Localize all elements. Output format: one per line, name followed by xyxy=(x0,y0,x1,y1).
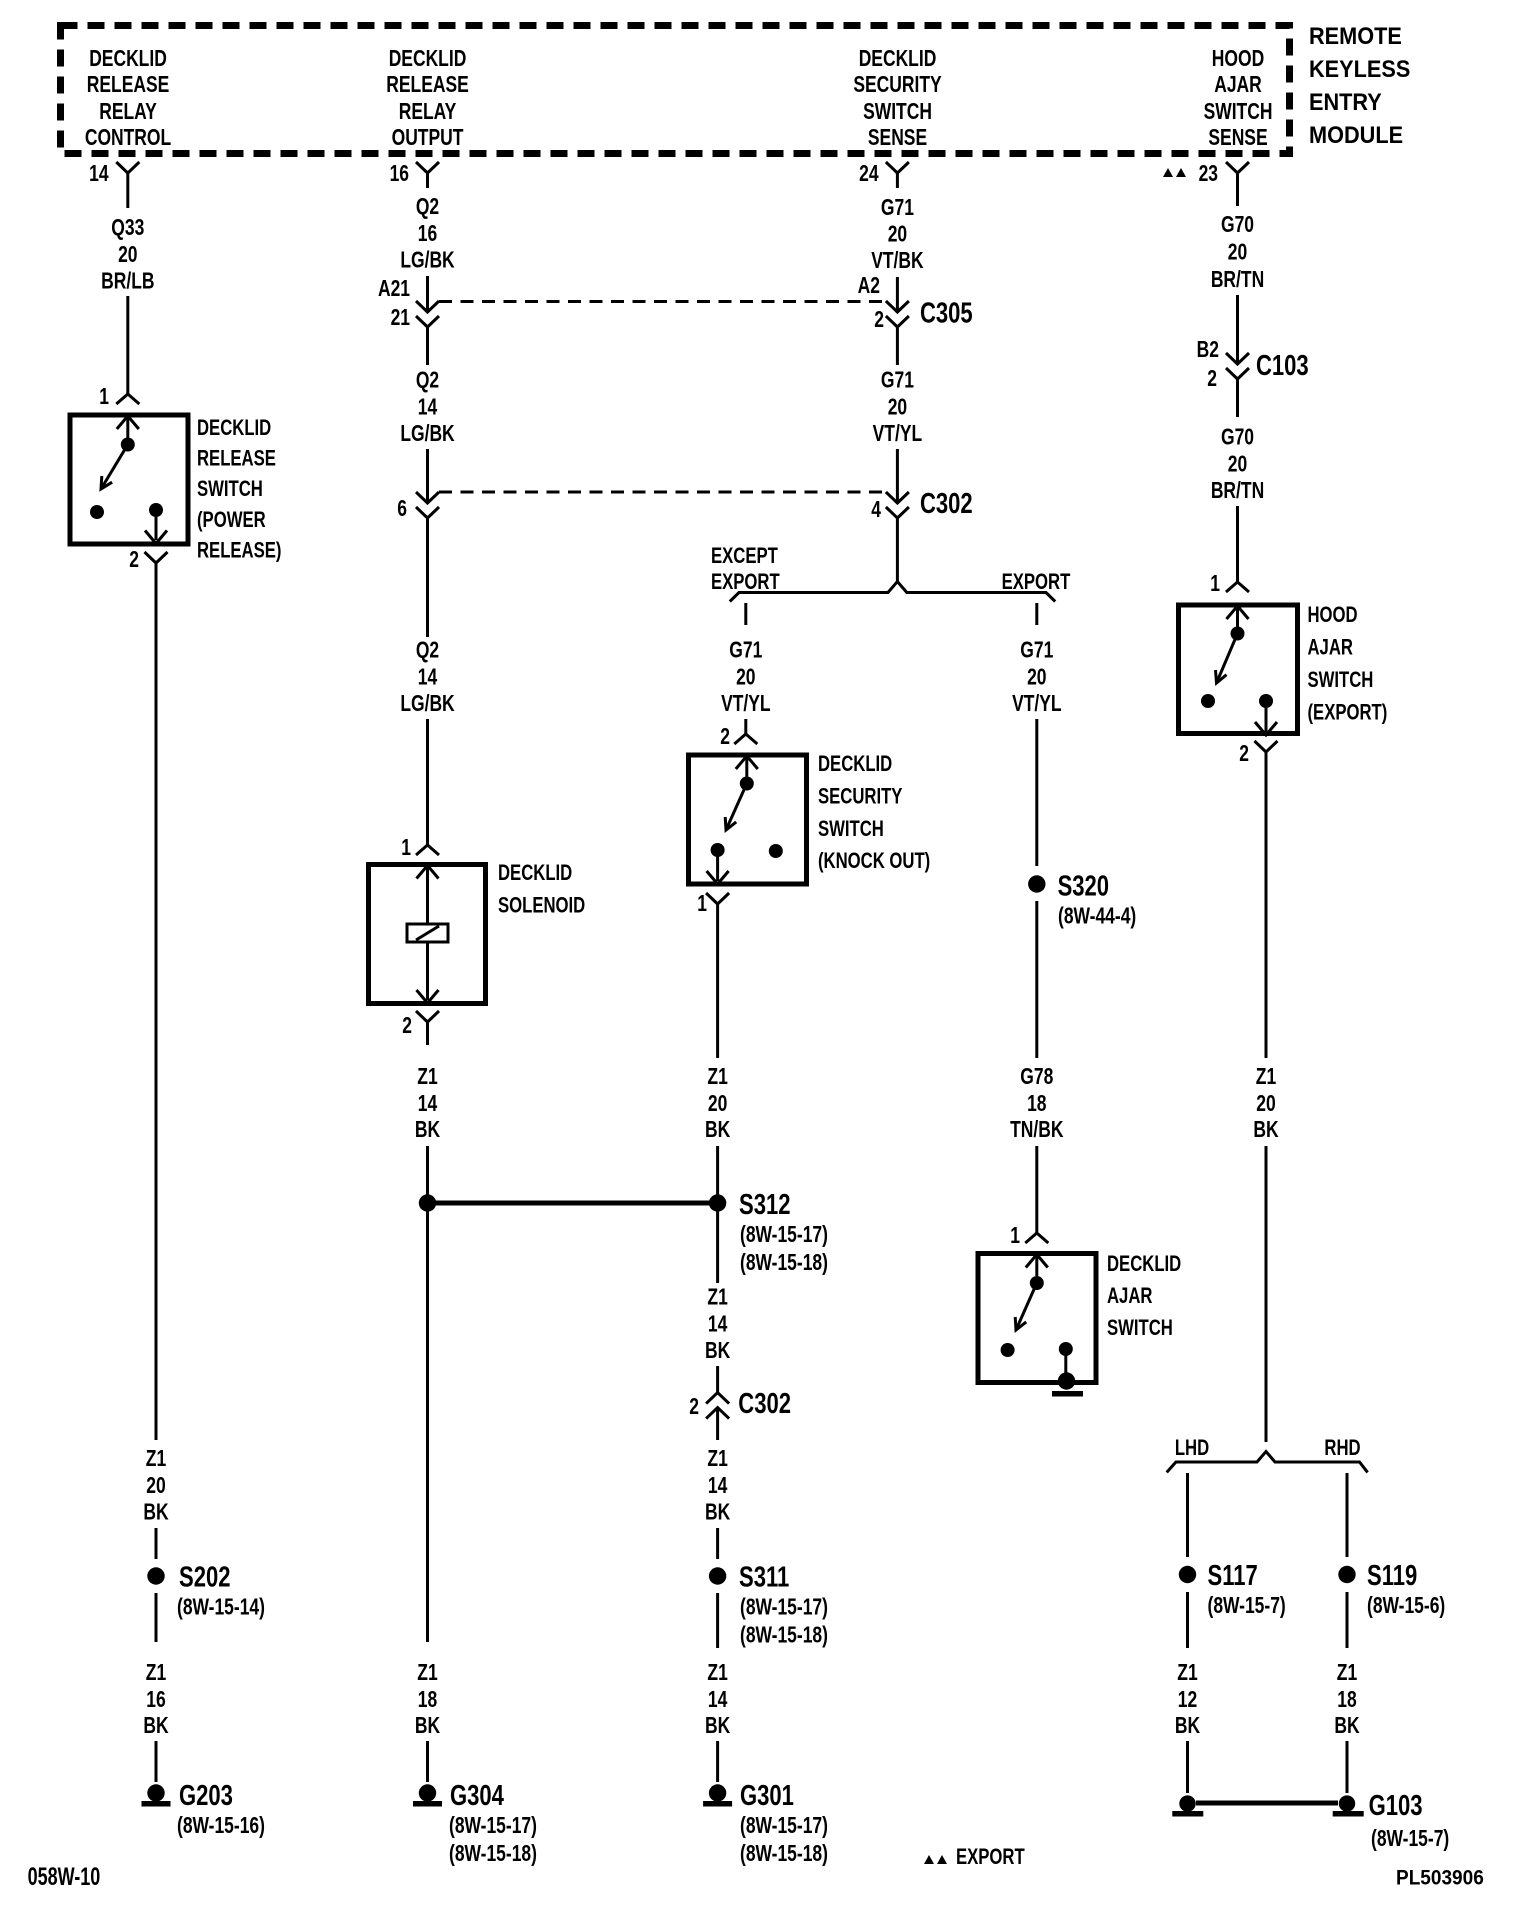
wire to decklid ajar switch xyxy=(1035,1146,1038,1233)
svg-text:C302: C302 xyxy=(920,488,973,520)
svg-text:20: 20 xyxy=(1228,240,1247,265)
svg-text:14: 14 xyxy=(89,162,109,187)
svg-text:BK: BK xyxy=(705,1118,730,1143)
svg-text:(POWER: (POWER xyxy=(197,508,266,533)
in-line connector C103 pin B2/2 xyxy=(1207,350,1308,391)
wire from switch pin 2 down xyxy=(155,563,158,1440)
wire below S202 xyxy=(155,1593,158,1642)
svg-text:A21: A21 xyxy=(378,277,410,302)
label: HOOD AJAR SWITCH (EXPORT) xyxy=(1308,603,1388,725)
svg-text:(KNOCK OUT): (KNOCK OUT) xyxy=(818,849,930,874)
svg-text:BR/TN: BR/TN xyxy=(1211,479,1264,504)
wire label Q2 14 LG/BK xyxy=(400,327,455,447)
svg-text:BK: BK xyxy=(1334,1714,1359,1739)
dashed link wire to C302 column 3 xyxy=(439,491,884,494)
svg-text:VT/YL: VT/YL xyxy=(721,692,770,717)
pin 1 of decklid solenoid xyxy=(401,836,439,861)
svg-text:2: 2 xyxy=(874,308,884,333)
svg-text:Q2: Q2 xyxy=(416,195,439,220)
wire below S320 xyxy=(1035,901,1038,1058)
svg-text:B2: B2 xyxy=(1197,338,1219,363)
svg-text:RELAY: RELAY xyxy=(99,100,157,125)
svg-text:MODULE: MODULE xyxy=(1309,121,1403,148)
svg-text:BK: BK xyxy=(705,1339,730,1364)
svg-text:SECURITY: SECURITY xyxy=(853,73,942,98)
wire joining grounds xyxy=(1196,1801,1338,1806)
svg-text:G203: G203 xyxy=(179,1780,233,1812)
svg-text:A2: A2 xyxy=(858,274,880,299)
in-line connector C305 pin A2/2 xyxy=(874,298,972,333)
wire below hood ajar switch xyxy=(1265,753,1268,1059)
svg-text:VT/BK: VT/BK xyxy=(871,249,924,274)
svg-text:2: 2 xyxy=(689,1395,699,1420)
ground G203 xyxy=(142,1780,265,1838)
wire to decklid solenoid xyxy=(426,719,429,845)
svg-text:20: 20 xyxy=(708,1092,727,1117)
wire to ground G203 xyxy=(155,1741,158,1782)
splice S320 xyxy=(1028,871,1136,929)
svg-text:14: 14 xyxy=(418,1092,438,1117)
svg-text:SWITCH: SWITCH xyxy=(1204,100,1273,125)
svg-text:2: 2 xyxy=(1239,742,1249,767)
wire to LHD/RHD split xyxy=(1265,1146,1268,1442)
wire label Z1 14 BK (above C302) xyxy=(705,1285,730,1363)
pin 2 of decklid solenoid xyxy=(402,1011,439,1045)
label: DECKLID RELEASE SWITCH (POWER RELEASE) xyxy=(197,416,281,563)
wire to splice S312 xyxy=(716,1146,719,1196)
wire label Z1 16 BK xyxy=(143,1661,168,1739)
wire label G70 20 BR/TN xyxy=(1211,213,1264,293)
pin function: DECKLID RELEASE RELAY OUTPUT xyxy=(386,47,468,151)
wire below C302 xyxy=(426,518,429,637)
svg-text:BK: BK xyxy=(143,1714,168,1739)
svg-text:BK: BK xyxy=(705,1714,730,1739)
svg-text:SENSE: SENSE xyxy=(1208,126,1267,151)
svg-text:(8W-15-17): (8W-15-17) xyxy=(740,1223,828,1248)
svg-text:BK: BK xyxy=(415,1714,440,1739)
module name: REMOTE KEYLESS ENTRY MODULE xyxy=(1309,22,1410,148)
svg-text:SENSE: SENSE xyxy=(868,126,927,151)
svg-text:20: 20 xyxy=(118,243,137,268)
svg-text:G70: G70 xyxy=(1221,213,1254,238)
svg-text:1: 1 xyxy=(1210,572,1220,597)
svg-text:20: 20 xyxy=(888,222,907,247)
svg-text:EXPORT: EXPORT xyxy=(711,570,780,595)
svg-text:Z1: Z1 xyxy=(707,1661,727,1686)
svg-text:1: 1 xyxy=(1010,1224,1020,1249)
svg-text:(8W-15-18): (8W-15-18) xyxy=(740,1842,828,1867)
svg-text:LG/BK: LG/BK xyxy=(400,422,455,447)
svg-text:RELEASE): RELEASE) xyxy=(197,538,281,563)
label: DECKLID SOLENOID xyxy=(498,861,585,918)
wire below security switch xyxy=(716,904,719,1058)
wire below S312 xyxy=(716,1211,719,1283)
wire label G70 20 BR/TN (lower) xyxy=(1211,379,1264,504)
svg-text:BK: BK xyxy=(705,1500,730,1525)
svg-text:EXPORT: EXPORT xyxy=(956,1845,1025,1870)
svg-text:HOOD: HOOD xyxy=(1308,603,1358,628)
svg-text:(8W-15-18): (8W-15-18) xyxy=(449,1842,537,1867)
pin function: HOOD AJAR SWITCH SENSE xyxy=(1204,47,1273,151)
wire label Q2 14 LG/BK (lower) xyxy=(400,638,455,716)
branch wire (export) xyxy=(1035,603,1038,625)
svg-text:(8W-15-7): (8W-15-7) xyxy=(1371,1827,1449,1852)
svg-text:18: 18 xyxy=(1027,1092,1046,1117)
svg-text:14: 14 xyxy=(708,1312,728,1337)
branch split EXCEPT EXPORT / EXPORT xyxy=(730,582,1055,602)
svg-text:HOOD: HOOD xyxy=(1212,47,1264,72)
svg-text:(8W-15-6): (8W-15-6) xyxy=(1367,1594,1445,1619)
svg-text:DECKLID: DECKLID xyxy=(859,47,937,72)
pin 1 of decklid security switch xyxy=(697,892,729,917)
svg-text:OUTPUT: OUTPUT xyxy=(392,126,464,151)
svg-text:S320: S320 xyxy=(1058,871,1109,903)
splice S117 xyxy=(1179,1560,1286,1618)
pin function: DECKLID SECURITY SWITCH SENSE xyxy=(853,47,942,151)
svg-text:20: 20 xyxy=(146,1474,165,1499)
svg-text:1: 1 xyxy=(99,385,109,410)
svg-text:(8W-44-4): (8W-44-4) xyxy=(1058,904,1136,929)
svg-text:RELEASE: RELEASE xyxy=(386,73,468,98)
svg-text:058W-10: 058W-10 xyxy=(28,1862,101,1891)
svg-text:CONTROL: CONTROL xyxy=(85,126,171,151)
export legend triangles xyxy=(924,1855,947,1864)
svg-text:RELEASE: RELEASE xyxy=(197,446,276,471)
svg-text:18: 18 xyxy=(1337,1688,1356,1713)
svg-text:RELAY: RELAY xyxy=(399,100,457,125)
wire below S311 xyxy=(716,1593,719,1648)
svg-text:G71: G71 xyxy=(729,638,762,663)
dashed link wire to C305 column 3 xyxy=(439,300,884,303)
label EXCEPT EXPORT xyxy=(711,544,780,595)
wire label Z1 14 BK (below C302) xyxy=(705,1447,730,1525)
wire label Z1 14 BK xyxy=(415,1065,440,1143)
wire below S119 xyxy=(1346,1592,1349,1648)
svg-text:G78: G78 xyxy=(1020,1065,1053,1090)
wire to connector C302 xyxy=(426,449,429,503)
in-line connector C302 pin 6 xyxy=(397,492,439,522)
svg-text:16: 16 xyxy=(418,222,437,247)
svg-text:14: 14 xyxy=(418,665,438,690)
wire Q33 20 BR/LB xyxy=(101,216,154,394)
svg-text:(8W-15-18): (8W-15-18) xyxy=(740,1623,828,1648)
wire label G71 20 VT/BK xyxy=(871,196,924,274)
ground G103 xyxy=(1333,1790,1450,1851)
pin 2 of decklid release switch xyxy=(129,548,167,573)
svg-text:C103: C103 xyxy=(1256,350,1309,382)
svg-text:VT/YL: VT/YL xyxy=(1012,692,1061,717)
svg-text:BR/TN: BR/TN xyxy=(1211,268,1264,293)
wire to splice S202 xyxy=(155,1528,158,1559)
svg-text:24: 24 xyxy=(859,162,879,187)
svg-text:DECKLID: DECKLID xyxy=(818,752,892,777)
svg-text:2: 2 xyxy=(402,1014,412,1039)
wire label Z1 12 BK xyxy=(1175,1661,1200,1739)
svg-text:16: 16 xyxy=(146,1688,165,1713)
pin 1 of decklid release switch xyxy=(99,385,139,410)
wire label Z1 18 BK xyxy=(415,1661,440,1739)
svg-text:(8W-15-16): (8W-15-16) xyxy=(177,1814,265,1839)
svg-text:S202: S202 xyxy=(179,1562,230,1594)
pin 1 of hood ajar switch xyxy=(1210,572,1249,597)
svg-text:BK: BK xyxy=(1175,1714,1200,1739)
wire label Z1 20 BK xyxy=(143,1447,168,1525)
remote keyless entry module (dashed box) xyxy=(61,26,1290,154)
svg-text:12: 12 xyxy=(1178,1688,1197,1713)
svg-text:G71: G71 xyxy=(1020,638,1053,663)
wire label Q2 16 LG/BK xyxy=(400,195,455,273)
wire label G71 20 VT/YL (export) xyxy=(1012,638,1061,716)
svg-text:BK: BK xyxy=(143,1500,168,1525)
svg-text:S311: S311 xyxy=(739,1562,789,1594)
svg-text:Z1: Z1 xyxy=(707,1065,727,1090)
wire to ground G304 xyxy=(426,1741,429,1782)
svg-text:6: 6 xyxy=(397,497,407,522)
svg-text:20: 20 xyxy=(1228,452,1247,477)
svg-text:C305: C305 xyxy=(920,298,973,330)
svg-text:Z1: Z1 xyxy=(417,1661,437,1686)
decklid security switch (knock out) xyxy=(689,755,807,884)
svg-text:1: 1 xyxy=(401,836,411,861)
LHD / RHD branch split xyxy=(1167,1452,1368,1473)
wire to connector C305 xyxy=(858,274,898,312)
svg-text:SWITCH: SWITCH xyxy=(818,817,884,842)
svg-text:ENTRY: ENTRY xyxy=(1309,88,1382,115)
pin 14 connector xyxy=(89,162,139,208)
wire below C302 lower xyxy=(716,1408,719,1440)
wire label Z1 14 BK (bottom) xyxy=(705,1661,730,1739)
junction at S312 branch xyxy=(419,1194,436,1211)
wire to connector C103 xyxy=(1197,295,1238,364)
wire below S117 xyxy=(1186,1592,1189,1648)
svg-text:2: 2 xyxy=(129,548,139,573)
svg-text:Z1: Z1 xyxy=(1256,1065,1276,1090)
svg-text:(8W-15-18): (8W-15-18) xyxy=(740,1251,828,1276)
svg-text:Q33: Q33 xyxy=(111,216,144,241)
wire to connector C302 lower xyxy=(716,1366,719,1393)
svg-text:DECKLID: DECKLID xyxy=(498,861,572,886)
svg-text:SWITCH: SWITCH xyxy=(1308,668,1374,693)
in-line connector C302 pin 2 (lower) xyxy=(689,1388,791,1420)
svg-text:PL503906: PL503906 xyxy=(1396,1866,1484,1889)
wire label G71 20 VT/YL (left branch) xyxy=(721,638,770,716)
svg-text:(8W-15-17): (8W-15-17) xyxy=(740,1595,828,1620)
svg-text:Z1: Z1 xyxy=(1177,1661,1197,1686)
wire label Z1 20 BK (left branch) xyxy=(705,1065,730,1143)
pin 1 of decklid ajar switch xyxy=(1010,1224,1048,1249)
svg-text:2: 2 xyxy=(720,725,730,750)
svg-text:VT/YL: VT/YL xyxy=(873,422,922,447)
svg-text:(8W-15-14): (8W-15-14) xyxy=(177,1595,265,1620)
svg-text:14: 14 xyxy=(708,1688,728,1713)
svg-text:LG/BK: LG/BK xyxy=(400,692,455,717)
svg-text:20: 20 xyxy=(1027,665,1046,690)
svg-text:LG/BK: LG/BK xyxy=(400,248,455,273)
svg-text:23: 23 xyxy=(1199,162,1218,187)
svg-text:RELEASE: RELEASE xyxy=(87,73,169,98)
hood ajar switch (export) xyxy=(1179,605,1298,735)
pin 23 connector xyxy=(1199,162,1249,206)
wire below junction xyxy=(426,1203,429,1642)
in-line connector C305 pin A21/21 xyxy=(378,277,439,331)
svg-text:LHD: LHD xyxy=(1175,1436,1209,1461)
branch wire (except export) xyxy=(744,603,747,625)
ground G304 xyxy=(413,1780,537,1866)
svg-text:14: 14 xyxy=(418,395,438,420)
decklid solenoid L1 xyxy=(369,865,486,1004)
svg-text:Z1: Z1 xyxy=(417,1065,437,1090)
svg-text:16: 16 xyxy=(390,162,409,187)
svg-text:SWITCH: SWITCH xyxy=(863,100,932,125)
svg-text:1: 1 xyxy=(697,892,707,917)
svg-text:G301: G301 xyxy=(740,1780,794,1812)
svg-text:TN/BK: TN/BK xyxy=(1010,1118,1064,1143)
wire to branch split xyxy=(896,518,899,581)
in-line connector C302 pin 4 xyxy=(871,488,972,522)
svg-text:S312: S312 xyxy=(739,1189,790,1221)
svg-text:Q2: Q2 xyxy=(416,368,439,393)
LHD branch wire xyxy=(1186,1473,1189,1557)
svg-text:EXPORT: EXPORT xyxy=(1002,570,1071,595)
svg-text:DECKLID: DECKLID xyxy=(89,47,167,72)
decklid ajar switch xyxy=(978,1254,1096,1397)
svg-text:2: 2 xyxy=(1207,367,1217,392)
svg-text:(8W-15-17): (8W-15-17) xyxy=(740,1814,828,1839)
svg-text:DECKLID: DECKLID xyxy=(1107,1252,1181,1277)
svg-text:14: 14 xyxy=(708,1474,728,1499)
splice S202 xyxy=(147,1562,265,1620)
pin function: DECKLID RELEASE RELAY CONTROL xyxy=(85,47,171,151)
svg-text:Z1: Z1 xyxy=(707,1447,727,1472)
label: DECKLID AJAR SWITCH xyxy=(1107,1252,1181,1341)
splice S119 xyxy=(1338,1560,1445,1618)
wire label Z1 18 BK xyxy=(1334,1661,1359,1739)
svg-text:S117: S117 xyxy=(1208,1560,1258,1592)
svg-text:Z1: Z1 xyxy=(1337,1661,1357,1686)
svg-text:AJAR: AJAR xyxy=(1214,73,1262,98)
svg-text:KEYLESS: KEYLESS xyxy=(1309,55,1410,82)
wire to hood ajar switch xyxy=(1236,506,1239,582)
wire label Z1 20 BK (column 4) xyxy=(1253,1065,1278,1143)
svg-text:4: 4 xyxy=(871,498,881,523)
svg-text:C302: C302 xyxy=(738,1388,791,1420)
wire label G71 20 VT/YL xyxy=(873,327,922,447)
svg-text:DECKLID: DECKLID xyxy=(389,47,467,72)
svg-text:20: 20 xyxy=(1256,1092,1275,1117)
svg-text:20: 20 xyxy=(888,395,907,420)
wire to connector C302 xyxy=(896,449,899,503)
svg-text:SECURITY: SECURITY xyxy=(818,784,902,809)
svg-text:SWITCH: SWITCH xyxy=(1107,1316,1173,1341)
svg-text:S119: S119 xyxy=(1367,1560,1417,1592)
svg-text:DECKLID: DECKLID xyxy=(197,416,271,441)
svg-text:(8W-15-7): (8W-15-7) xyxy=(1208,1594,1286,1619)
svg-text:AJAR: AJAR xyxy=(1107,1284,1152,1309)
svg-text:Z1: Z1 xyxy=(707,1285,727,1310)
wire to ground G301 xyxy=(716,1741,719,1782)
wire to splice S320 xyxy=(1035,719,1038,866)
LHD wire to ground xyxy=(1186,1741,1189,1793)
svg-text:G71: G71 xyxy=(881,368,914,393)
wire to junction xyxy=(426,1146,429,1196)
wire to splice S311 xyxy=(716,1528,719,1559)
svg-text:Z1: Z1 xyxy=(146,1661,166,1686)
svg-text:REMOTE: REMOTE xyxy=(1309,22,1402,49)
svg-text:21: 21 xyxy=(391,306,410,331)
RHD wire to ground G103 xyxy=(1346,1741,1349,1793)
wire to decklid security switch xyxy=(744,719,747,734)
splice S312 xyxy=(709,1189,828,1275)
svg-text:(EXPORT): (EXPORT) xyxy=(1308,700,1388,725)
pin 16 connector xyxy=(390,162,439,188)
svg-text:SWITCH: SWITCH xyxy=(197,477,263,502)
wire junction to splice S312 xyxy=(428,1201,718,1206)
pin 2 of decklid security switch xyxy=(720,725,757,750)
svg-text:G71: G71 xyxy=(881,196,914,221)
pin 2 of hood ajar switch xyxy=(1239,741,1277,767)
RHD branch wire xyxy=(1346,1473,1349,1557)
svg-text:BK: BK xyxy=(1253,1118,1278,1143)
svg-text:18: 18 xyxy=(418,1688,437,1713)
svg-text:EXCEPT: EXCEPT xyxy=(711,544,778,569)
label: DECKLID SECURITY SWITCH (KNOCK OUT) xyxy=(818,752,930,874)
svg-text:Q2: Q2 xyxy=(416,638,439,663)
decklid release switch S1 (power release) xyxy=(70,415,188,544)
svg-text:G304: G304 xyxy=(450,1780,504,1812)
svg-text:RHD: RHD xyxy=(1324,1436,1360,1461)
svg-text:Z1: Z1 xyxy=(146,1447,166,1472)
svg-text:(8W-15-17): (8W-15-17) xyxy=(449,1814,537,1839)
ground node LHD side xyxy=(1172,1795,1203,1816)
wire label G78 18 TN/BK xyxy=(1010,1065,1064,1143)
splice S311 xyxy=(709,1562,828,1648)
svg-text:G70: G70 xyxy=(1221,425,1254,450)
svg-text:20: 20 xyxy=(736,665,755,690)
svg-text:AJAR: AJAR xyxy=(1308,635,1353,660)
svg-text:BR/LB: BR/LB xyxy=(101,269,154,294)
wire to connector C305 xyxy=(426,276,429,312)
svg-text:SOLENOID: SOLENOID xyxy=(498,893,585,918)
ground G301 xyxy=(703,1780,828,1866)
pin 24 connector xyxy=(859,162,909,188)
svg-text:G103: G103 xyxy=(1369,1790,1423,1822)
export marker triangles xyxy=(1163,168,1186,177)
svg-text:BK: BK xyxy=(415,1118,440,1143)
